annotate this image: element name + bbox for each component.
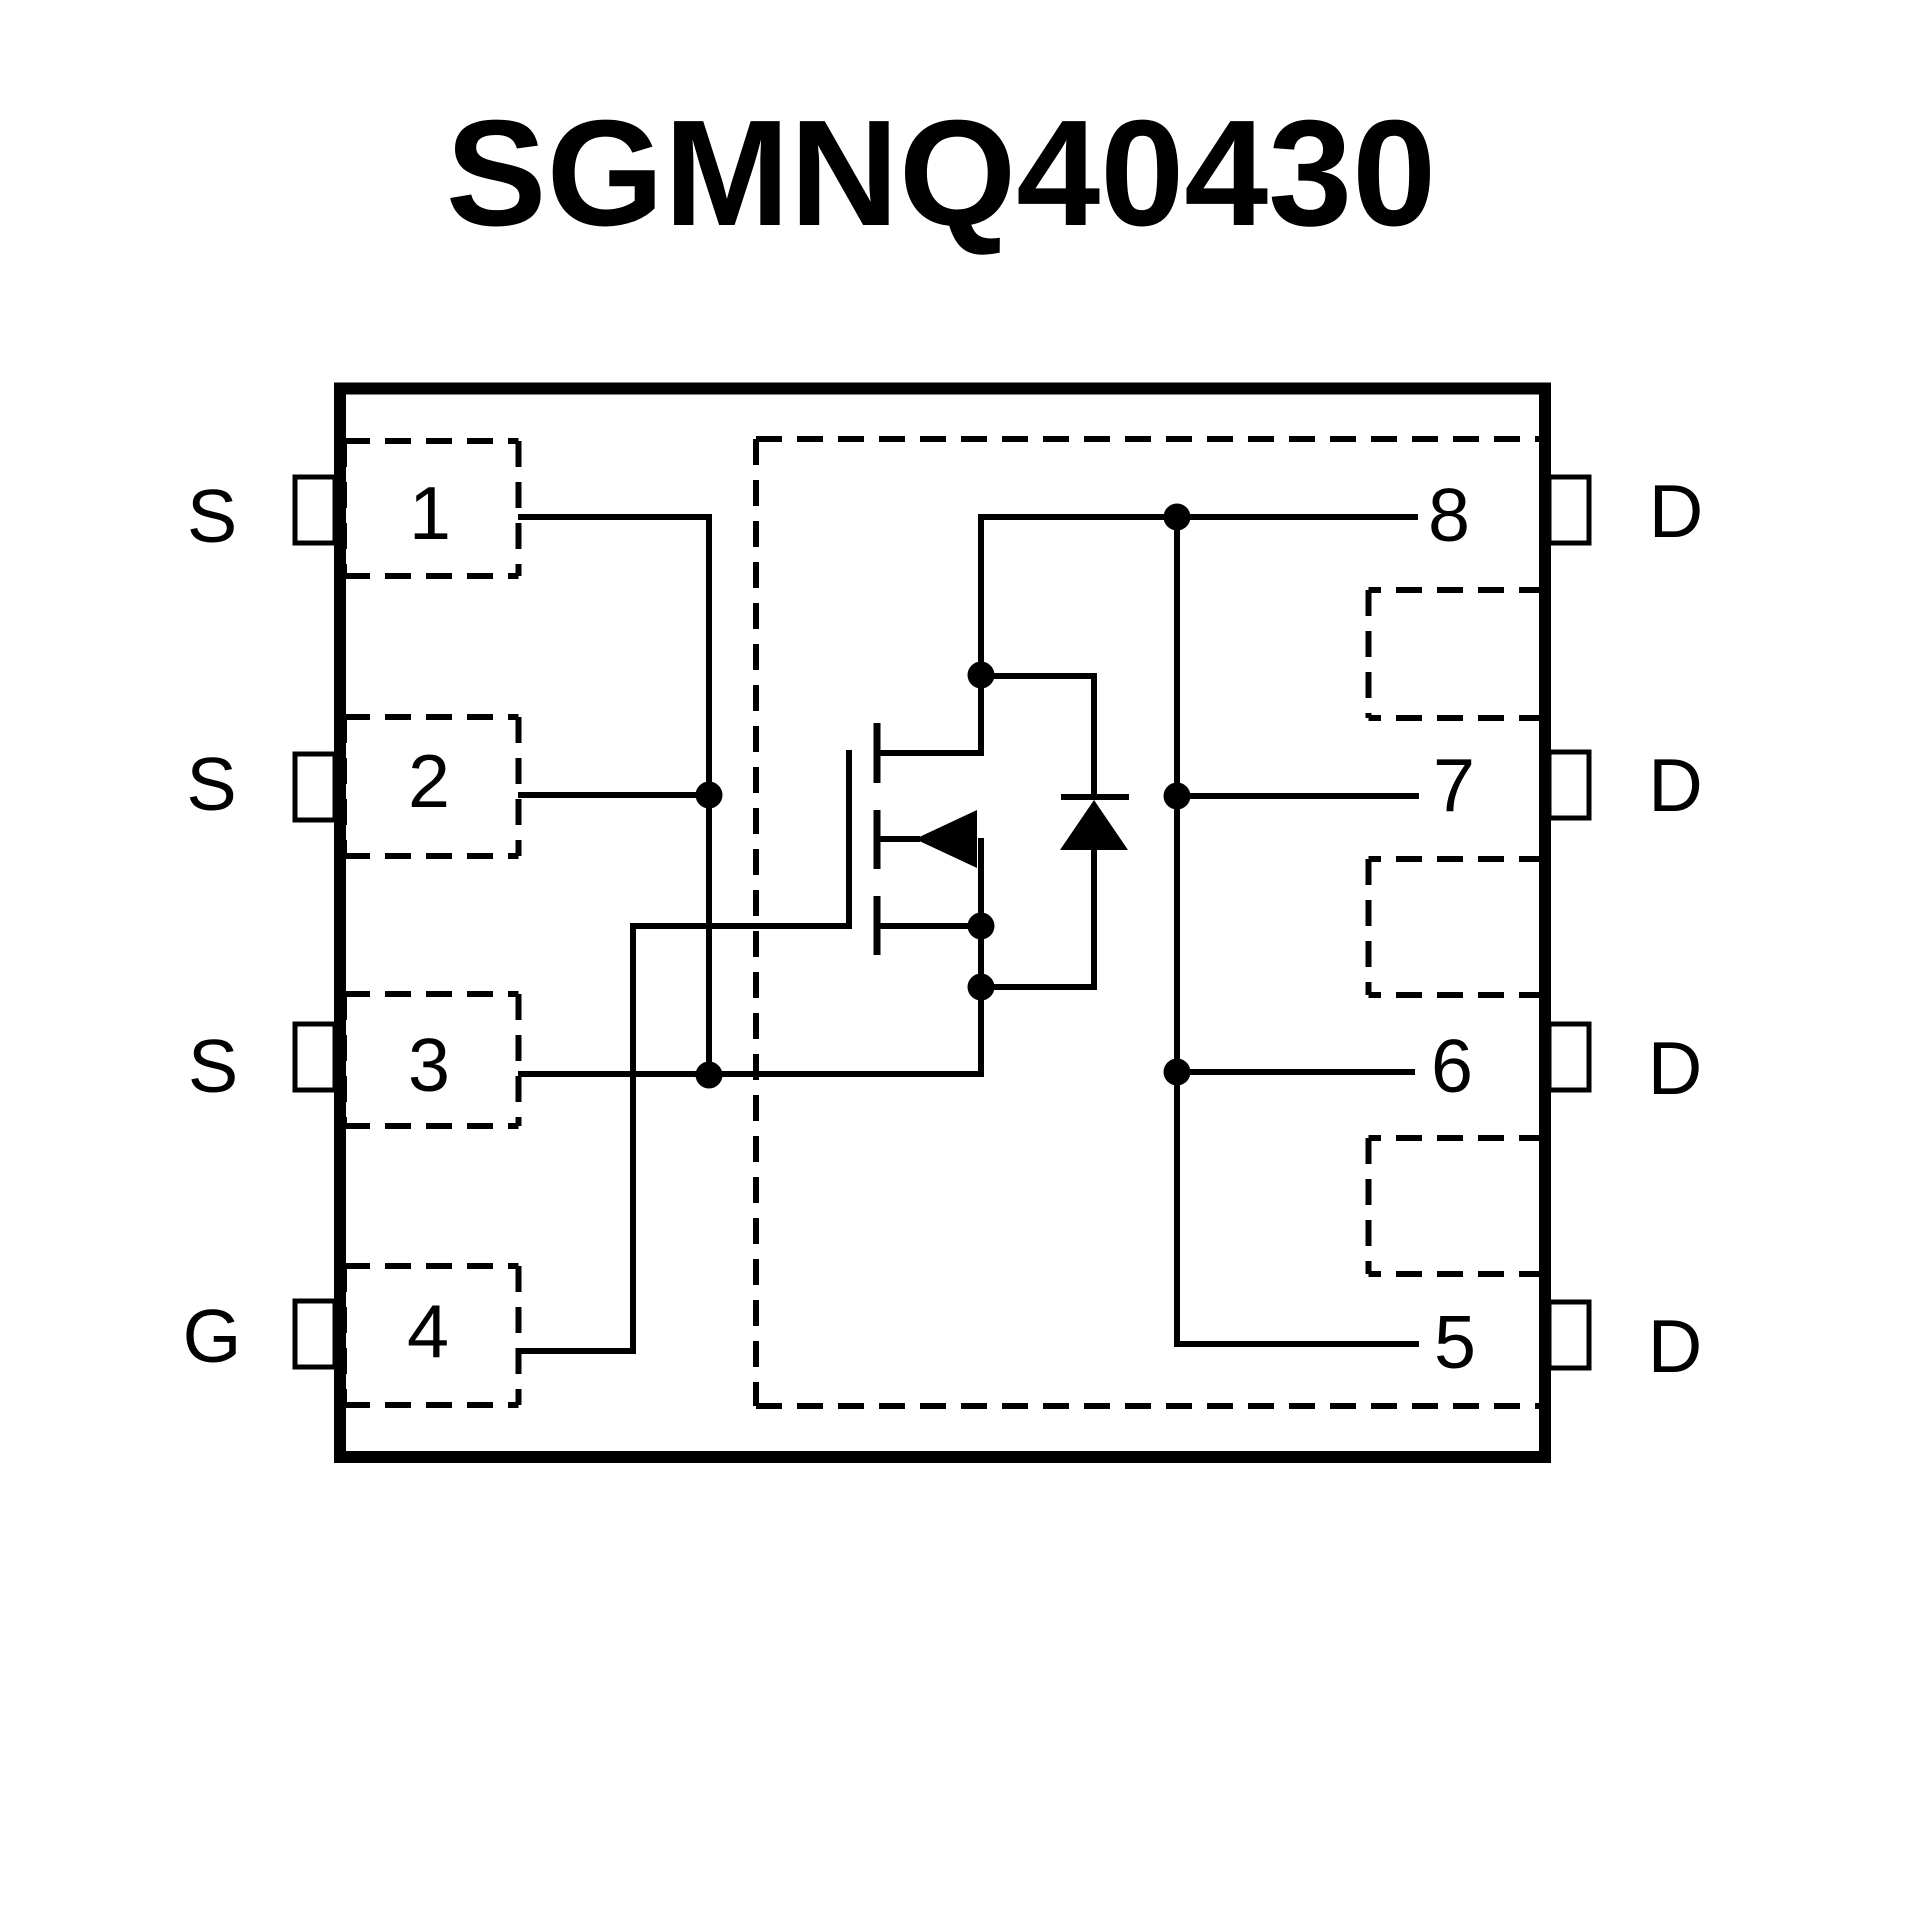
pad box right middle (dashed) (1369, 859, 1546, 995)
pin 7 stub (1549, 752, 1589, 818)
pad box pin 1 (dashed) (344, 441, 519, 576)
wire drain to diode cathode (981, 676, 1094, 797)
node junction dot (drain/diode top) (968, 662, 995, 689)
svg-text:D: D (1648, 1304, 1703, 1388)
pin 8 stub (1549, 477, 1589, 543)
diode D1 cathode bar (1061, 794, 1129, 800)
pin 5 stub (1549, 1302, 1589, 1368)
transistor Q1 body arrow (915, 810, 977, 868)
svg-text:S: S (188, 1024, 238, 1108)
transistor Q1 body-to-source vertical (978, 838, 984, 926)
wire pin4 to gate (518, 926, 846, 1351)
svg-text:7: 7 (1433, 743, 1475, 827)
wire diode anode to source (981, 850, 1094, 987)
wire pin3 to source riser (518, 924, 981, 1074)
node junction dot (pin8 bus) (1164, 504, 1191, 531)
svg-text:G: G (183, 1294, 242, 1378)
node junction dot (diode bottom) (968, 974, 995, 1001)
svg-text:S: S (186, 742, 236, 826)
svg-text:D: D (1648, 743, 1703, 827)
svg-text:SGMNQ40430: SGMNQ40430 (446, 88, 1436, 257)
svg-text:D: D (1649, 469, 1704, 553)
node junction dot (pin3) (696, 1062, 723, 1089)
pad box pin 3 (dashed) (344, 994, 519, 1126)
svg-text:8: 8 (1428, 473, 1470, 557)
pin 6 stub (1549, 1024, 1589, 1090)
transistor Q1 gate bar (846, 750, 852, 929)
svg-text:D: D (1648, 1026, 1703, 1110)
pad box pin 2 (dashed) (344, 717, 519, 856)
transistor Q1 drain stub (874, 750, 981, 756)
node junction dot (source stub) (968, 913, 995, 940)
pin 4 stub (295, 1301, 335, 1367)
package outline U1 (340, 389, 1545, 1458)
svg-text:3: 3 (408, 1023, 450, 1107)
svg-text:4: 4 (407, 1289, 449, 1373)
wire pin1 to node A (518, 517, 709, 1075)
wire pin2 to node A (518, 792, 709, 798)
node junction dot (pin6 bus) (1164, 1059, 1191, 1086)
svg-text:1: 1 (409, 471, 451, 555)
transistor Q1 channel dashes (874, 723, 881, 955)
node A junction dot (pin2) (696, 782, 723, 809)
pad box pin 4 (dashed) (344, 1266, 519, 1405)
pin 1 stub (295, 477, 335, 543)
pad box right upper (dashed) (1369, 590, 1546, 718)
wire drain bus and pin5 (1177, 517, 1419, 1344)
transistor Q1 body stub (874, 836, 920, 842)
wire pin7 (1177, 793, 1419, 799)
pin 2 stub (295, 754, 335, 820)
svg-text:5: 5 (1434, 1300, 1476, 1384)
diode D1 triangle (1060, 800, 1128, 850)
svg-text:2: 2 (408, 739, 450, 823)
wire pin6 (1177, 1069, 1415, 1075)
drain pad region (inner dashed rectangle) (756, 439, 1545, 1406)
pad box right lower (dashed) (1369, 1138, 1546, 1274)
transistor Q1 source stub (874, 923, 981, 929)
svg-text:6: 6 (1431, 1024, 1473, 1108)
svg-text:S: S (187, 474, 237, 558)
node junction dot (pin7 bus) (1164, 783, 1191, 810)
pin 3 stub (295, 1024, 335, 1090)
wire drain riser to pin8 (981, 517, 1418, 756)
